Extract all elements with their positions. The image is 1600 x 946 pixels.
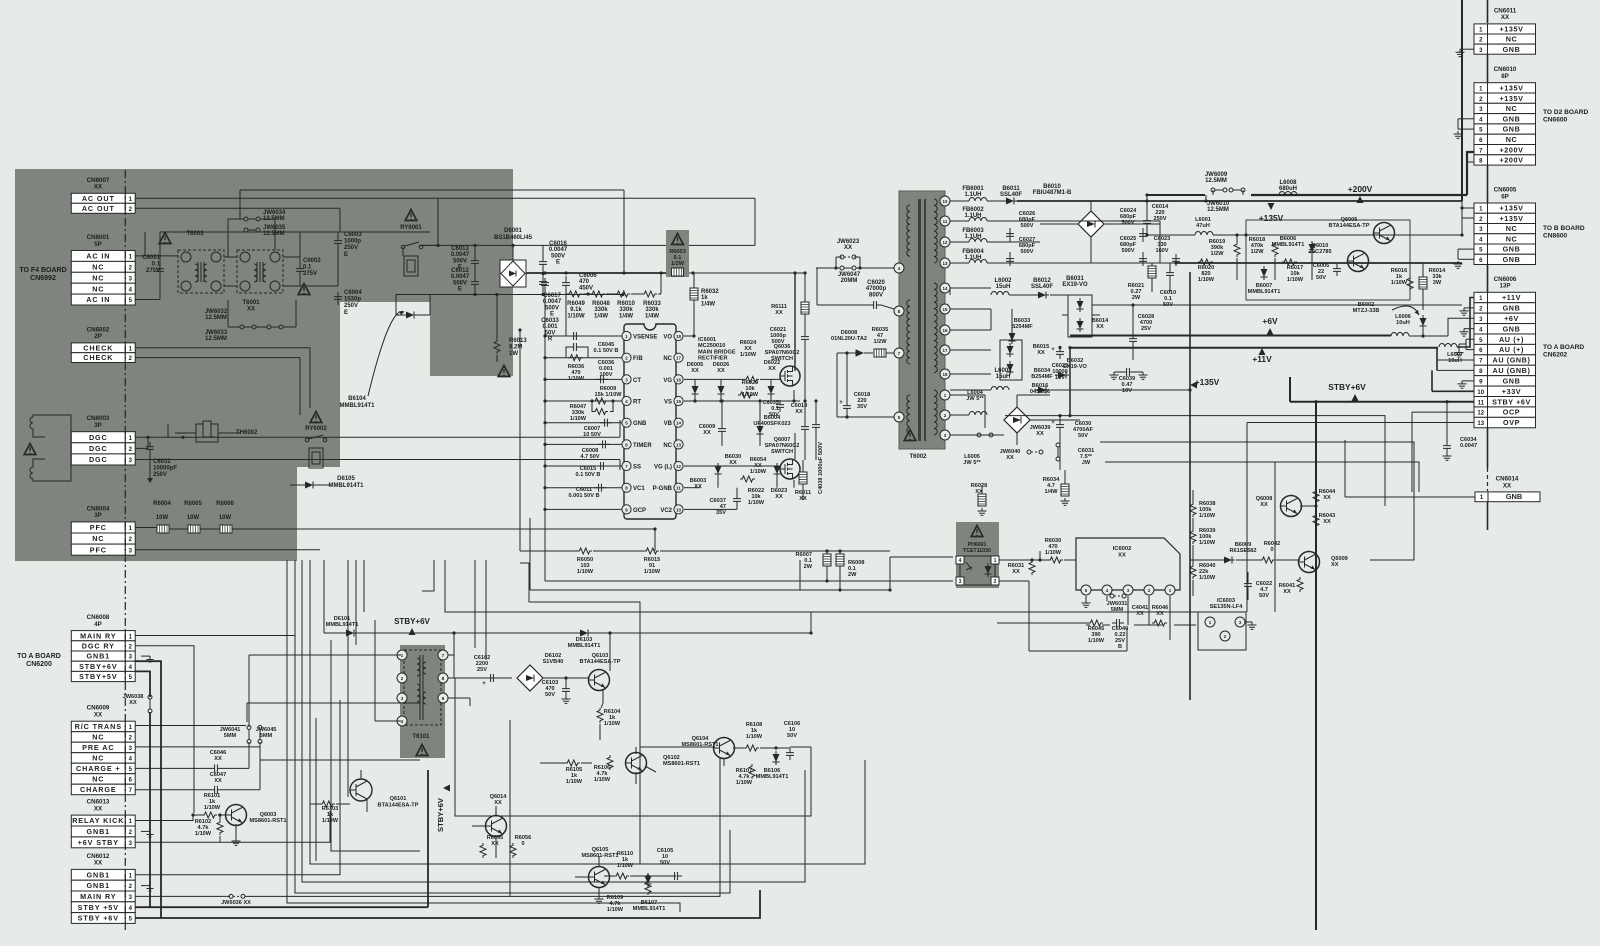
wire CHECK net bbox=[135, 347, 310, 349]
svg-text:C6013: C6013 bbox=[451, 246, 469, 252]
svg-text:250V: 250V bbox=[1153, 216, 1166, 222]
svg-text:3: 3 bbox=[959, 579, 962, 585]
svg-text:L6002: L6002 bbox=[994, 278, 1012, 284]
transistor Q6014 bbox=[486, 816, 507, 837]
svg-text:GNB: GNB bbox=[1503, 245, 1521, 254]
capacitor C6002 bbox=[296, 264, 304, 276]
svg-text:SSL40F: SSL40F bbox=[1000, 192, 1022, 198]
svg-text:NC: NC bbox=[92, 273, 104, 282]
svg-text:C6006: C6006 bbox=[579, 273, 597, 279]
wire Q6105 net bbox=[598, 888, 600, 896]
IC U6001 main bridge controller bbox=[624, 324, 676, 519]
capacitor C6001 bbox=[156, 264, 164, 276]
svg-text:25V: 25V bbox=[477, 667, 487, 673]
svg-text:250V: 250V bbox=[153, 472, 167, 478]
svg-text:1W: 1W bbox=[509, 351, 518, 357]
svg-text:NC: NC bbox=[663, 356, 672, 362]
svg-text:PRE AC: PRE AC bbox=[82, 743, 114, 752]
svg-text:50V: 50V bbox=[1078, 433, 1088, 439]
svg-text:5MM: 5MM bbox=[260, 733, 273, 739]
svg-text:1/10W: 1/10W bbox=[644, 569, 661, 575]
transistor Q6005 bbox=[1374, 223, 1395, 244]
svg-text:1/2W: 1/2W bbox=[1210, 251, 1224, 257]
svg-text:GNB: GNB bbox=[1503, 125, 1521, 134]
transistor Q6008 bbox=[1281, 496, 1302, 517]
svg-text:B254MF: B254MF bbox=[1031, 374, 1053, 380]
resistor R6011 bbox=[799, 472, 807, 484]
wire R6003 net bbox=[689, 272, 805, 274]
svg-text:E: E bbox=[344, 310, 348, 316]
svg-text:50V: 50V bbox=[1316, 275, 1326, 281]
transformer T6002 core bbox=[899, 191, 945, 449]
svg-text:1/10W: 1/10W bbox=[742, 392, 759, 398]
svg-text:FB6001: FB6001 bbox=[962, 186, 984, 192]
svg-text:GNB: GNB bbox=[1503, 324, 1521, 333]
svg-text:XX: XX bbox=[795, 409, 803, 415]
svg-text:0.001: 0.001 bbox=[542, 324, 558, 330]
svg-text:450V: 450V bbox=[579, 285, 593, 291]
wire Q6008 net bbox=[1192, 490, 1194, 502]
svg-text:1/10W: 1/10W bbox=[577, 569, 594, 575]
svg-text:FBIU487M1-B: FBIU487M1-B bbox=[1033, 190, 1072, 196]
svg-text:DGC RY: DGC RY bbox=[82, 642, 115, 651]
svg-text:Q6101: Q6101 bbox=[390, 796, 407, 802]
capacitor C6008 bbox=[598, 440, 610, 448]
svg-text:+135V: +135V bbox=[1500, 83, 1524, 92]
svg-text:13: 13 bbox=[676, 442, 681, 447]
MOSFET Q6036 bbox=[780, 366, 800, 386]
svg-text:L6008: L6008 bbox=[1279, 180, 1297, 186]
wire main bus bbox=[526, 272, 666, 274]
svg-text:XX: XX bbox=[768, 366, 776, 372]
svg-text:SWITCH: SWITCH bbox=[771, 449, 793, 455]
wire Q6005 box bbox=[1246, 220, 1410, 300]
bridge rectifier D6001 bbox=[500, 260, 526, 287]
svg-text:4P: 4P bbox=[94, 621, 102, 628]
wire pin13 long bbox=[1176, 262, 1462, 264]
svg-text:STBY+6V: STBY+6V bbox=[394, 617, 430, 626]
svg-text:1/10W: 1/10W bbox=[204, 805, 221, 811]
svg-text:RT: RT bbox=[633, 399, 641, 405]
svg-text:VO: VO bbox=[663, 334, 672, 340]
transistor Q6104 bbox=[714, 738, 735, 759]
svg-text:MMBL914T1: MMBL914T1 bbox=[328, 483, 364, 489]
svg-text:XX: XX bbox=[1012, 569, 1020, 575]
svg-text:C6004: C6004 bbox=[344, 290, 362, 296]
svg-text:C6012: C6012 bbox=[451, 268, 469, 274]
svg-text:XX: XX bbox=[94, 860, 103, 867]
svg-text:10uH: 10uH bbox=[1448, 358, 1462, 364]
svg-text:EX19-VO: EX19-VO bbox=[1062, 282, 1088, 288]
resistor R6008 bbox=[836, 554, 844, 566]
svg-text:01NL20U-TA2: 01NL20U-TA2 bbox=[831, 336, 867, 342]
resistor R6007 bbox=[823, 554, 831, 566]
svg-text:AC IN: AC IN bbox=[86, 252, 110, 261]
svg-text:FB6003: FB6003 bbox=[962, 228, 984, 234]
svg-text:1/10W: 1/10W bbox=[604, 721, 621, 727]
svg-text:1/2W: 1/2W bbox=[1250, 249, 1264, 255]
wire standby loop bundle bbox=[520, 563, 640, 864]
warning triangle near T6003 bbox=[159, 233, 171, 244]
svg-text:MMBL914T1: MMBL914T1 bbox=[756, 774, 789, 780]
svg-text:B6012: B6012 bbox=[1033, 278, 1051, 284]
svg-text:C6016: C6016 bbox=[549, 241, 567, 247]
resistor R6010 bbox=[615, 291, 630, 297]
svg-text:NC: NC bbox=[1506, 234, 1518, 243]
svg-text:1/2W: 1/2W bbox=[671, 261, 685, 267]
svg-text:XX: XX bbox=[1036, 431, 1044, 437]
svg-text:35V: 35V bbox=[857, 404, 867, 410]
svg-text:1.1UH: 1.1UH bbox=[964, 234, 981, 240]
svg-text:RECTIFIER: RECTIFIER bbox=[698, 356, 728, 362]
svg-text:B254MF: B254MF bbox=[1011, 324, 1033, 330]
svg-text:OVP: OVP bbox=[1503, 418, 1520, 427]
svg-text:1/2W: 1/2W bbox=[873, 339, 887, 345]
resistor R6050 bbox=[577, 548, 592, 554]
svg-text:GNB: GNB bbox=[1503, 255, 1521, 264]
optocoupler PH6001 hazard box bbox=[956, 522, 999, 588]
svg-text:50V: 50V bbox=[545, 692, 555, 698]
svg-text:1/4W: 1/4W bbox=[645, 313, 659, 319]
svg-text:BTA144ESA-TP: BTA144ESA-TP bbox=[580, 659, 621, 665]
wire T6101 pin4 bbox=[375, 720, 401, 722]
svg-text:1/10W: 1/10W bbox=[1198, 277, 1215, 283]
wire STBY rail bbox=[324, 632, 343, 634]
svg-text:1/10W: 1/10W bbox=[594, 777, 611, 783]
svg-text:XX: XX bbox=[1006, 455, 1014, 461]
svg-text:B6011: B6011 bbox=[1002, 186, 1020, 192]
transformer T6002 pins bbox=[940, 196, 950, 206]
svg-text:0.001 50V B: 0.001 50V B bbox=[568, 493, 599, 499]
svg-text:XX: XX bbox=[1503, 482, 1512, 489]
svg-text:E: E bbox=[556, 260, 560, 266]
svg-text:R6033: R6033 bbox=[643, 301, 661, 307]
svg-text:1/10W: 1/10W bbox=[740, 352, 757, 358]
hazard box R6003 bbox=[666, 230, 689, 277]
svg-text:+6V STBY: +6V STBY bbox=[78, 838, 119, 847]
svg-text:NC: NC bbox=[92, 733, 104, 742]
bridge B6010 bbox=[1078, 211, 1104, 237]
svg-text:RELAY KICK: RELAY KICK bbox=[72, 816, 124, 825]
diode B6030 bbox=[715, 463, 722, 477]
relay RY6001 bbox=[405, 210, 417, 221]
svg-text:14: 14 bbox=[943, 286, 948, 291]
svg-text:+135V: +135V bbox=[1500, 94, 1524, 103]
svg-text:OCP: OCP bbox=[1503, 408, 1520, 417]
svg-text:5MM: 5MM bbox=[224, 733, 237, 739]
svg-text:CN6202: CN6202 bbox=[1543, 351, 1568, 358]
rail +11V bbox=[1070, 347, 1438, 349]
capacitor C6032 bbox=[146, 442, 154, 454]
svg-text:330k: 330k bbox=[619, 307, 633, 313]
transformer T6101 pins bbox=[397, 650, 407, 660]
svg-text:TO D2 BOARD: TO D2 BOARD bbox=[1543, 109, 1589, 116]
svg-text:+135V: +135V bbox=[1259, 213, 1284, 223]
svg-text:+135V: +135V bbox=[1195, 377, 1220, 387]
relay RY6002 bbox=[310, 412, 322, 423]
svg-text:VB: VB bbox=[664, 421, 673, 427]
svg-text:3P: 3P bbox=[94, 512, 102, 519]
svg-text:15uH: 15uH bbox=[996, 284, 1011, 290]
bridge B6016 bbox=[1004, 407, 1030, 433]
svg-text:+11V: +11V bbox=[1502, 293, 1521, 302]
svg-text:+: + bbox=[1051, 420, 1055, 426]
svg-text:6P: 6P bbox=[1501, 193, 1509, 200]
capacitor C6015 bbox=[596, 462, 608, 470]
wire +135 secondary bbox=[1017, 200, 1462, 202]
svg-text:C4038 1000uF 500V: C4038 1000uF 500V bbox=[818, 442, 824, 494]
svg-text:XX: XX bbox=[1156, 611, 1164, 617]
svg-text:JW6033: JW6033 bbox=[205, 330, 228, 336]
svg-text:9.1k: 9.1k bbox=[570, 307, 582, 313]
svg-text:CHECK: CHECK bbox=[83, 343, 113, 352]
svg-text:VC2: VC2 bbox=[660, 508, 672, 514]
svg-text:B6031: B6031 bbox=[1066, 276, 1084, 282]
svg-text:R6006: R6006 bbox=[216, 501, 234, 507]
diode B6104 bbox=[403, 312, 417, 319]
svg-text:50V: 50V bbox=[787, 733, 797, 739]
svg-text:XX: XX bbox=[1136, 611, 1144, 617]
svg-text:CN8600: CN8600 bbox=[1543, 232, 1568, 239]
wire right bus bbox=[1461, 0, 1463, 201]
svg-text:JW: JW bbox=[1082, 460, 1091, 466]
svg-text:0.0047: 0.0047 bbox=[1460, 443, 1477, 449]
svg-text:1/4W: 1/4W bbox=[701, 301, 715, 307]
wire IC6001 left pin net bbox=[545, 335, 622, 337]
svg-text:MAIN RY: MAIN RY bbox=[80, 892, 116, 901]
svg-text:10W: 10W bbox=[187, 515, 200, 521]
svg-text:R6032: R6032 bbox=[701, 289, 719, 295]
svg-text:TCET11030: TCET11030 bbox=[963, 548, 991, 554]
svg-text:15uH: 15uH bbox=[996, 374, 1011, 380]
svg-text:MMBL914T1: MMBL914T1 bbox=[326, 622, 359, 628]
svg-text:500V: 500V bbox=[551, 253, 565, 259]
wire top to R6003 bbox=[610, 189, 624, 191]
wire left connector bundle bbox=[135, 635, 295, 637]
svg-text:MS8601-RST1: MS8601-RST1 bbox=[250, 818, 287, 824]
svg-text:B: B bbox=[1118, 644, 1122, 650]
jumper JW6034 bbox=[244, 217, 260, 221]
svg-text:14: 14 bbox=[676, 421, 681, 426]
svg-text:10: 10 bbox=[943, 199, 948, 204]
svg-text:B6010: B6010 bbox=[1043, 184, 1061, 190]
svg-text:MAIN BRIDGE: MAIN BRIDGE bbox=[698, 349, 736, 355]
svg-text:STBY+6V: STBY+6V bbox=[436, 797, 445, 832]
svg-text:12.5MM: 12.5MM bbox=[205, 336, 227, 342]
wire bridge output bbox=[419, 244, 755, 246]
svg-text:STBY +6V: STBY +6V bbox=[78, 914, 119, 923]
svg-text:JW6023: JW6023 bbox=[837, 239, 860, 245]
resistor R6013 bbox=[494, 339, 500, 354]
svg-text:1000p: 1000p bbox=[344, 239, 361, 245]
svg-text:500V: 500V bbox=[1121, 248, 1134, 254]
resistor R6047 bbox=[593, 398, 608, 404]
transistor Q6105 bbox=[589, 867, 610, 888]
svg-text:1/10W: 1/10W bbox=[1287, 277, 1304, 283]
svg-text:T6001: T6001 bbox=[242, 300, 260, 306]
svg-text:CN6992: CN6992 bbox=[30, 275, 56, 282]
svg-text:SSL40F: SSL40F bbox=[1031, 284, 1053, 290]
warning triangle near C6004 bbox=[298, 284, 310, 295]
svg-text:GNB: GNB bbox=[1503, 304, 1521, 313]
svg-text:+: + bbox=[839, 400, 843, 406]
svg-text:12: 12 bbox=[676, 464, 681, 469]
wire secondary mid bbox=[1050, 294, 1068, 296]
capacitor C6006 bbox=[562, 278, 570, 290]
rail +200V bbox=[1147, 194, 1205, 196]
transistor Q6009 bbox=[1299, 552, 1320, 573]
svg-text:JW6034: JW6034 bbox=[263, 210, 286, 216]
svg-text:MS8601-RST1: MS8601-RST1 bbox=[582, 853, 619, 859]
svg-text:XX: XX bbox=[94, 805, 103, 812]
svg-text:R6048: R6048 bbox=[592, 301, 610, 307]
transistor Q6103 bbox=[589, 670, 610, 691]
svg-text:B6104: B6104 bbox=[348, 396, 366, 402]
IC U6002 regulator bbox=[1076, 538, 1180, 590]
svg-text:16V: 16V bbox=[1055, 375, 1065, 381]
svg-text:1/10W: 1/10W bbox=[748, 500, 765, 506]
capacitor C6017 bbox=[541, 278, 549, 290]
svg-text:15: 15 bbox=[943, 307, 948, 312]
svg-text:XX: XX bbox=[1323, 495, 1331, 501]
svg-text:SWITCH: SWITCH bbox=[771, 356, 793, 362]
wire relay RY6001 to bridge bbox=[421, 244, 438, 246]
wire 135V rail bbox=[1147, 234, 1195, 236]
svg-text:13: 13 bbox=[1477, 421, 1484, 427]
svg-text:TO A BOARD: TO A BOARD bbox=[17, 653, 61, 660]
svg-text:15k 1/10W: 15k 1/10W bbox=[594, 392, 622, 398]
inductor line filter at CN6003 bbox=[30, 415, 47, 481]
svg-text:AU (GNB): AU (GNB) bbox=[1493, 366, 1531, 375]
svg-text:XX: XX bbox=[694, 484, 702, 490]
svg-text:E: E bbox=[550, 312, 554, 318]
svg-text:1030p: 1030p bbox=[344, 297, 361, 303]
svg-text:25V: 25V bbox=[1141, 326, 1151, 332]
wire B6016 net bbox=[950, 434, 1004, 436]
svg-text:NC: NC bbox=[1506, 224, 1518, 233]
svg-text:+200V: +200V bbox=[1500, 156, 1524, 165]
svg-text:CHARGE +: CHARGE + bbox=[76, 764, 121, 773]
svg-text:XX: XX bbox=[1096, 324, 1104, 330]
svg-text:XX: XX bbox=[214, 756, 222, 762]
jumper JW6032 bbox=[240, 325, 256, 329]
svg-text:FB6004: FB6004 bbox=[962, 249, 984, 255]
svg-text:T6002: T6002 bbox=[909, 454, 927, 460]
svg-text:D6105: D6105 bbox=[337, 476, 355, 482]
svg-text:330k: 330k bbox=[594, 307, 608, 313]
resistor R6054 bbox=[740, 476, 755, 482]
svg-text:0.1: 0.1 bbox=[303, 265, 312, 271]
svg-text:12: 12 bbox=[1477, 411, 1484, 417]
svg-text:JW6009: JW6009 bbox=[1205, 172, 1228, 178]
svg-text:E: E bbox=[344, 252, 348, 258]
svg-text:5P: 5P bbox=[94, 241, 102, 248]
rail +6V bbox=[1070, 335, 1391, 337]
svg-text:NC: NC bbox=[92, 284, 104, 293]
svg-text:1/4W: 1/4W bbox=[1044, 489, 1058, 495]
wire PRE AC bbox=[135, 746, 260, 748]
svg-text:P-GNB: P-GNB bbox=[653, 486, 673, 492]
svg-text:VSENSE: VSENSE bbox=[633, 334, 657, 340]
svg-text:+33V: +33V bbox=[1502, 387, 1521, 396]
svg-text:TO A BOARD: TO A BOARD bbox=[1543, 344, 1584, 351]
svg-text:275V: 275V bbox=[303, 271, 317, 277]
svg-text:T6101: T6101 bbox=[412, 734, 430, 740]
svg-text:18: 18 bbox=[676, 334, 681, 339]
svg-text:C6003: C6003 bbox=[344, 232, 362, 238]
svg-text:STBY +6V: STBY +6V bbox=[1492, 397, 1531, 406]
svg-text:10: 10 bbox=[676, 507, 681, 512]
wire misc right bottom bbox=[1039, 551, 1041, 557]
svg-text:500V: 500V bbox=[545, 305, 559, 311]
svg-text:GNB: GNB bbox=[1506, 492, 1522, 501]
svg-text:XX: XX bbox=[1037, 350, 1045, 356]
svg-text:SE135N-LF4: SE135N-LF4 bbox=[1210, 604, 1244, 610]
svg-text:1/10W: 1/10W bbox=[570, 416, 587, 422]
svg-text:10: 10 bbox=[1477, 390, 1484, 396]
svg-text:2W: 2W bbox=[804, 564, 813, 570]
svg-text:NC: NC bbox=[663, 443, 672, 449]
diode B6004 bbox=[757, 423, 764, 437]
MOSFET Q6007 bbox=[780, 459, 800, 479]
svg-text:XX: XX bbox=[1501, 14, 1510, 21]
svg-text:13P: 13P bbox=[1499, 283, 1510, 290]
svg-text:XX: XX bbox=[703, 430, 711, 436]
svg-text:800V: 800V bbox=[869, 292, 883, 298]
svg-text:NC: NC bbox=[92, 534, 104, 543]
svg-text:GNB: GNB bbox=[633, 421, 647, 427]
svg-text:1/10W: 1/10W bbox=[1045, 550, 1062, 556]
svg-text:11: 11 bbox=[1478, 400, 1485, 406]
transistor Q6010 bbox=[1348, 251, 1369, 272]
svg-text:20MM: 20MM bbox=[841, 278, 858, 284]
svg-text:1/10W: 1/10W bbox=[1088, 638, 1105, 644]
wire opto right bbox=[999, 559, 1048, 561]
jumper JW6035 bbox=[244, 228, 260, 232]
svg-text:+200V: +200V bbox=[1500, 145, 1524, 154]
svg-text:MMBL914T1: MMBL914T1 bbox=[568, 643, 601, 649]
capacitor C6013 bbox=[471, 256, 479, 268]
svg-text:CN6200: CN6200 bbox=[26, 661, 52, 668]
svg-text:0: 0 bbox=[521, 841, 524, 847]
warning triangle T6101 bbox=[416, 745, 428, 756]
svg-text:MTZJ-33B: MTZJ-33B bbox=[1353, 308, 1380, 314]
svg-text:17: 17 bbox=[676, 356, 681, 361]
svg-text:NC: NC bbox=[1506, 104, 1518, 113]
svg-text:1/4W: 1/4W bbox=[619, 313, 633, 319]
svg-text:TO F4 BOARD: TO F4 BOARD bbox=[19, 267, 66, 274]
svg-text:50V: 50V bbox=[1259, 593, 1269, 599]
transformer T6101 core bbox=[400, 645, 445, 758]
svg-text:D6001: D6001 bbox=[504, 228, 522, 234]
resistor R6029 bbox=[738, 392, 753, 398]
capacitor CT cap bbox=[596, 375, 608, 383]
transformer T6003/T6001 windings bbox=[178, 250, 224, 293]
svg-text:330k: 330k bbox=[645, 307, 659, 313]
svg-text:160V: 160V bbox=[1155, 248, 1168, 254]
capacitor C6012 bbox=[471, 277, 479, 289]
transistor Q6003 bbox=[226, 805, 247, 826]
svg-text:275V: 275V bbox=[146, 268, 160, 274]
svg-text:C6045: C6045 bbox=[598, 342, 614, 348]
svg-text:12.5MM: 12.5MM bbox=[205, 315, 227, 321]
capacitor C6035 bbox=[776, 400, 784, 412]
capacitor C6016 bbox=[539, 257, 547, 269]
svg-text:47000p: 47000p bbox=[866, 286, 887, 292]
svg-text:0.0047: 0.0047 bbox=[451, 252, 470, 258]
jumper JW6033 bbox=[267, 325, 283, 329]
svg-text:500V: 500V bbox=[453, 280, 467, 286]
